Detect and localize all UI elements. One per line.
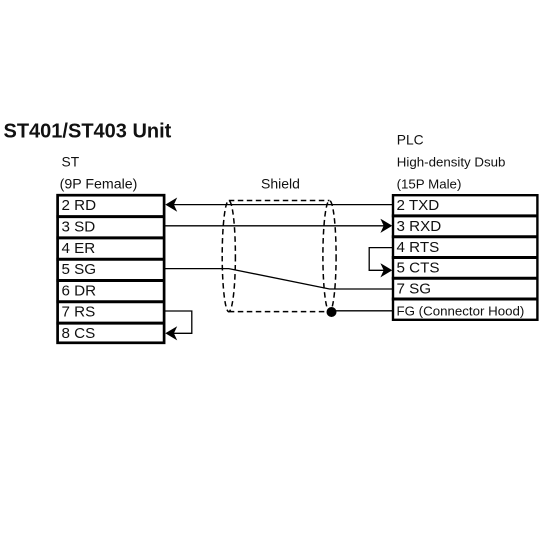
svg-text:ST: ST	[62, 154, 80, 169]
svg-text:High-density Dsub: High-density Dsub	[397, 154, 506, 169]
svg-text:7 SG: 7 SG	[397, 280, 432, 297]
svg-text:7 RS: 7 RS	[62, 304, 96, 321]
svg-text:6 DR: 6 DR	[62, 282, 97, 299]
junction dot on shield drain	[327, 307, 337, 317]
connector J1 row separators	[56, 217, 164, 324]
svg-text:ST401/ST403 Unit: ST401/ST403 Unit	[4, 120, 172, 142]
svg-text:3 RXD: 3 RXD	[397, 218, 442, 235]
svg-text:3 SD: 3 SD	[62, 219, 96, 236]
svg-text:8 CS: 8 CS	[62, 325, 96, 342]
connector J2 row separators	[392, 216, 538, 299]
shield bottom dashed line	[229, 311, 332, 313]
wire 7RS to 8CS loop	[165, 311, 192, 333]
connector J1 ST 9P Female outline	[58, 195, 165, 343]
svg-text:2 RD: 2 RD	[62, 197, 97, 214]
svg-text:(15P Male): (15P Male)	[397, 176, 462, 191]
svg-text:4 RTS: 4 RTS	[397, 239, 440, 256]
wire 2TXD to 2RD	[172, 204, 393, 206]
svg-text:4 ER: 4 ER	[62, 240, 96, 257]
arrowhead into 3RXD	[380, 219, 392, 233]
wire 4RTS to 5CTS loop	[369, 248, 393, 271]
svg-text:Shield: Shield	[261, 176, 300, 192]
wire shield to FG	[332, 310, 394, 312]
arrowhead into 2RD	[165, 198, 177, 212]
shield top dashed line	[229, 200, 330, 202]
svg-text:5 CTS: 5 CTS	[397, 260, 440, 277]
svg-text:5 SG: 5 SG	[62, 261, 97, 278]
svg-text:2 TXD: 2 TXD	[397, 197, 440, 214]
svg-text:FG (Connector Hood): FG (Connector Hood)	[397, 304, 525, 319]
arrowhead into 8CS	[165, 326, 177, 340]
wire 5SG to 7SG	[165, 269, 393, 289]
shield left ellipse	[222, 201, 235, 312]
svg-text:(9P Female): (9P Female)	[60, 177, 138, 193]
wire 3SD to 3RXD	[165, 225, 385, 227]
connector J2 PLC 15P Male outline	[393, 195, 537, 320]
shield right ellipse	[323, 201, 336, 312]
svg-text:PLC: PLC	[397, 133, 424, 148]
arrowhead into 5CTS	[380, 263, 392, 277]
